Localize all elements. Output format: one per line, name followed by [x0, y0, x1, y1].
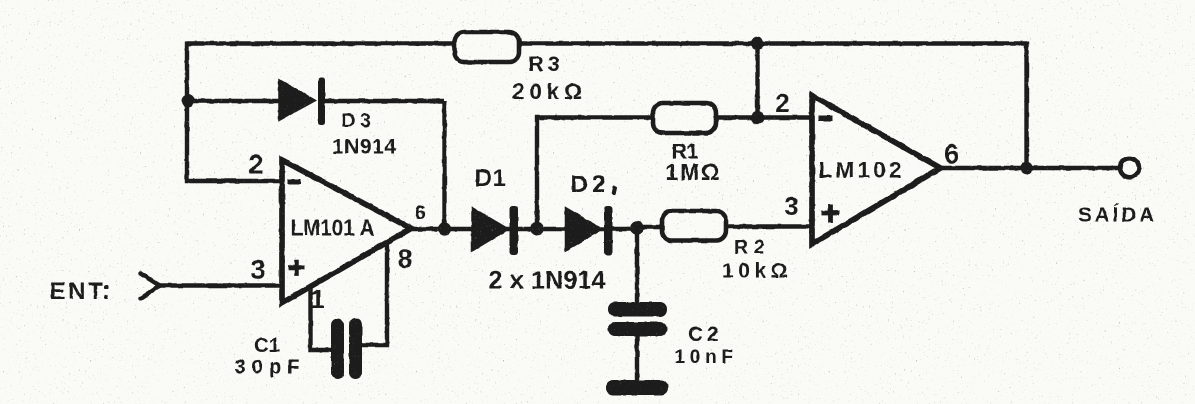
- wire left vertical + pin 2 of U1: [187, 42, 282, 182]
- diode D3 cathode bar: [318, 78, 325, 125]
- diode D1 triangle: [472, 208, 509, 252]
- diode D1 cathode bar: [510, 206, 519, 255]
- node junction between D1 and D2: [530, 222, 544, 236]
- resistor R3 body: [455, 32, 520, 62]
- wire R2 right to pin 3 of U2: [726, 224, 812, 228]
- wire pin 1 of U1 to C1 left: [311, 287, 333, 351]
- op-amp U2 plus sign: [822, 204, 840, 223]
- wire D3 drop vertical: [442, 101, 446, 229]
- wire R2 run to pin 3 of U2: [637, 225, 662, 229]
- wire output of U2 to terminal: [940, 166, 1119, 171]
- wire pin 8 of U1 to C1 right: [361, 242, 387, 346]
- wire D3 anode: [187, 99, 282, 103]
- diode D2 cathode bar: [604, 206, 613, 255]
- diode D3 triangle: [279, 80, 316, 121]
- capacitor C1 left plate: [331, 319, 344, 380]
- wire input pin 3 of U1: [157, 283, 282, 288]
- op-amp U2 LM102 triangle: [812, 96, 941, 245]
- node junction after D2: [630, 221, 644, 235]
- wire D3 cathode to drop: [321, 99, 445, 103]
- capacitor C1 right plate: [349, 319, 362, 380]
- wire C2 bottom to ground bar: [635, 336, 639, 382]
- node junction on top net: [751, 37, 764, 50]
- ground bar below C2: [606, 380, 668, 395]
- op-amp U1 LM101A triangle: [282, 160, 411, 303]
- wire node to R1 branch vertical and horizontal: [537, 118, 653, 230]
- node junction D3 tap: [182, 95, 195, 108]
- wire R1 to pin 2 of U2: [716, 115, 812, 119]
- upper dot of colon after ENT: [104, 285, 109, 289]
- op-amp U1 minus sign: [288, 179, 302, 185]
- op-amp U2 minus sign: [819, 116, 833, 122]
- wire output rail of U1 through D1 D2: [410, 227, 637, 232]
- resistor R1 body: [653, 103, 716, 133]
- output terminal circle: [1120, 158, 1139, 177]
- wire top feedback (R3 net): [187, 41, 1027, 45]
- wire right vertical to output node: [1024, 42, 1028, 169]
- input terminal arrow: [141, 274, 160, 299]
- node junction on output net: [1020, 162, 1032, 174]
- capacitor C2 top plate: [608, 302, 667, 317]
- label comma after D2: [611, 186, 617, 196]
- node junction D3 drop on rail: [438, 222, 451, 235]
- wire C2 top connection: [635, 229, 639, 303]
- op-amp U1 plus sign: [289, 260, 305, 276]
- capacitor C2 bottom plate: [608, 322, 667, 336]
- diode D2 triangle: [566, 208, 603, 252]
- node junction pin 2 net of U2: [751, 111, 764, 124]
- resistor R2 body: [662, 211, 726, 241]
- wire vertical from top net to pin2 node: [755, 44, 759, 118]
